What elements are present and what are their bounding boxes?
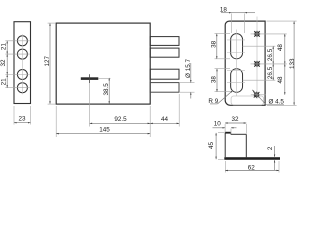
- dimension 18: [221, 12, 255, 14]
- extension lines 23 dim: [14, 106, 31, 125]
- svg-text:21: 21: [0, 78, 7, 86]
- svg-text:23: 23: [18, 115, 26, 122]
- svg-text:145: 145: [99, 126, 110, 133]
- dimension 32: [225, 122, 246, 124]
- dimension 62: [225, 170, 279, 172]
- dimension 48 lower: [284, 64, 286, 95]
- svg-text:44: 44: [161, 116, 169, 123]
- svg-text:45: 45: [208, 142, 215, 150]
- inner light projection rect: [231, 96, 264, 105]
- svg-text:Ø 15.7: Ø 15.7: [185, 59, 192, 78]
- svg-text:26.5: 26.5: [267, 48, 274, 61]
- svg-text:Ø 4.5: Ø 4.5: [268, 98, 284, 105]
- terminal circle A2: [17, 49, 27, 59]
- extension lines 62 dim: [225, 161, 279, 173]
- dimension 45: [215, 133, 217, 159]
- svg-text:R 9: R 9: [208, 98, 218, 105]
- dimension 133: [293, 21, 295, 105]
- svg-text:26.5: 26.5: [267, 66, 274, 79]
- extension lines bottom dims: [56, 83, 179, 137]
- svg-text:38: 38: [210, 40, 217, 48]
- L bracket top lip thick edge: [225, 132, 231, 134]
- dimension 38 lower: [216, 69, 218, 92]
- L bracket base plate: [224, 157, 280, 160]
- horizontal centerlines of circles: [5, 41, 29, 88]
- svg-text:48: 48: [277, 76, 284, 84]
- main body outline: [56, 23, 150, 104]
- slot 2 obround: [231, 69, 243, 93]
- dimension 48 upper: [284, 34, 286, 64]
- svg-text:32: 32: [0, 59, 7, 67]
- slot vertical centerline: [236, 30, 238, 97]
- svg-text:133: 133: [289, 58, 296, 69]
- cross holes vertical centerline: [256, 17, 258, 100]
- dimension 145: [56, 133, 150, 135]
- extension lines 18 dim: [232, 14, 245, 34]
- dimension dia 15.7: [190, 63, 192, 99]
- dimension 38.5 line: [108, 78, 110, 104]
- terminal tab 1: [150, 37, 179, 46]
- svg-text:2: 2: [267, 146, 274, 150]
- leader R9: [210, 91, 233, 104]
- dimension 44: [150, 122, 179, 124]
- vertical centerline left view: [21, 34, 23, 94]
- dimension 2: [274, 146, 276, 170]
- L bracket vertical leg: [225, 133, 246, 158]
- slot 1 obround: [231, 34, 243, 59]
- svg-text:48: 48: [277, 44, 284, 52]
- terminal circle A1: [17, 36, 27, 46]
- svg-text:127: 127: [44, 55, 51, 66]
- extension line 10 dim: [230, 129, 232, 135]
- svg-text:10: 10: [214, 121, 222, 128]
- dimension 92.5: [90, 122, 151, 124]
- svg-text:92.5: 92.5: [114, 116, 127, 123]
- extension lines 32 dim: [225, 124, 246, 134]
- dimension 26.5 lower: [272, 64, 274, 80]
- cross hole B3: [253, 92, 259, 98]
- cross hole B2: [254, 61, 260, 67]
- dimension 127 line: [49, 23, 51, 103]
- svg-text:62: 62: [248, 164, 256, 171]
- svg-text:32: 32: [231, 116, 239, 123]
- pin bar: [81, 77, 99, 80]
- pin extension right: [98, 78, 110, 80]
- svg-text:21: 21: [0, 43, 7, 51]
- leader dia 4.5: [252, 90, 284, 105]
- dimension 26.5 upper: [272, 46, 274, 64]
- dimension 23: [14, 122, 31, 124]
- pin centerline vertical: [89, 74, 91, 83]
- terminal circle A3: [17, 70, 27, 80]
- flange plate outline: [225, 21, 265, 105]
- left side view outline: [14, 22, 31, 104]
- cross hole B1: [254, 31, 260, 37]
- dimension chain 21/32/21 line: [6, 41, 8, 88]
- dimension 10: [213, 127, 237, 129]
- dimension 38 upper: [216, 34, 218, 59]
- extension lines 127 dim: [48, 23, 56, 104]
- extension lines dia 15.7: [180, 83, 195, 93]
- svg-text:38: 38: [211, 76, 218, 84]
- svg-text:18: 18: [220, 6, 228, 13]
- terminal tab 3: [150, 69, 179, 79]
- svg-text:38.5: 38.5: [103, 83, 110, 96]
- cross hole horizontal centerlines / extensions: [243, 21, 297, 105]
- extension lines 38 dims: [215, 34, 231, 92]
- terminal circle A4: [17, 83, 27, 93]
- slot1 hole centerlines: [227, 40, 245, 83]
- terminal tab 2: [150, 48, 179, 57]
- extension lines 45 dim: [218, 133, 225, 160]
- terminal boss 4: [150, 83, 179, 93]
